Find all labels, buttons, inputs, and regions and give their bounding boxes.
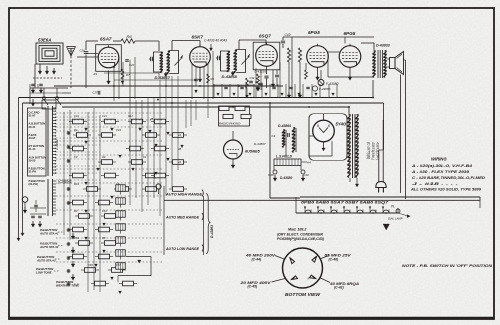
- field coil L.S.FIELD: [268, 155, 311, 182]
- condenser block title: [277, 228, 324, 242]
- V2 cathode lead: [198, 44, 212, 82]
- capacitor C21: [80, 41, 99, 88]
- wiring legend: [410, 157, 486, 192]
- AVC bus wire: [54, 85, 283, 87]
- band switch strip D-43862: [48, 106, 59, 176]
- switch strip lower: [48, 179, 72, 217]
- vacuum tube V5 6PG5: [339, 46, 361, 68]
- radio-phono switch resistors: [218, 106, 251, 126]
- matrix dashed wires: [56, 113, 162, 262]
- B+ bus wires: [19, 80, 384, 108]
- V2 pin drop wires: [192, 51, 214, 101]
- antenna: [67, 47, 99, 89]
- V4 V5 cathode leads: [305, 52, 352, 86]
- vacuum tube V4 6PG5: [307, 46, 329, 68]
- switch section label box: [28, 108, 47, 176]
- resistor R6: [113, 34, 135, 43]
- IF transformer D-43867: [149, 51, 183, 80]
- condenser socket BOTTOM VIEW: [283, 248, 323, 288]
- vacuum tube V1 6SA7: [96, 45, 122, 72]
- loop antenna leads: [33, 64, 62, 88]
- left supply rails: [19, 98, 23, 241]
- V1 cathode lead: [107, 71, 111, 85]
- antenna coupling network: [30, 88, 71, 109]
- power transformer: [348, 107, 380, 187]
- tuning eye tube 6U5/6E5: [224, 131, 261, 168]
- decoupling stubs on bus: [214, 84, 337, 98]
- matrix contact arrows and labels: [74, 114, 184, 294]
- speaker: [387, 52, 404, 75]
- interstage coupling wires: [104, 73, 255, 98]
- IF transformer D-43868: [216, 50, 250, 79]
- V3 grid components: [255, 67, 280, 92]
- tone control pot: [156, 184, 161, 194]
- matrix vertical wires: [64, 74, 208, 292]
- resistor R7: [287, 48, 290, 62]
- wire top bus to output tubes: [283, 37, 374, 98]
- matrix bottom connection wires: [118, 257, 151, 283]
- push button labels: [36, 228, 80, 288]
- heater string loops: [296, 197, 410, 221]
- left coupling caps: [34, 200, 38, 212]
- rectifier tube 5Y4G: [309, 114, 347, 160]
- arrow mark: [383, 224, 390, 230]
- wire T1 to V2: [172, 41, 200, 51]
- resistor matrix lower: [69, 200, 137, 286]
- vacuum tube V3 6SQ7: [253, 42, 280, 70]
- label P.B. button 31-PH: [29, 179, 45, 186]
- wire T2 to V3: [239, 40, 266, 50]
- wire R6 to T1: [135, 41, 159, 51]
- auto range labels: [164, 186, 214, 255]
- resistor matrix: [69, 119, 187, 191]
- capacitor label 40 MFD 6RQA: [329, 282, 360, 290]
- capacitor C49: [281, 33, 291, 48]
- wire heater to switch area: [164, 200, 480, 209]
- output transformer D-43833: [361, 43, 390, 78]
- V3 pin drop wires: [255, 62, 280, 97]
- loop antenna 53E6A: [36, 38, 63, 65]
- capacitor label 65 MFD 25V: [325, 254, 352, 262]
- socket lead lines: [272, 256, 331, 283]
- trimmer capacitor column: [116, 185, 126, 273]
- matrix contact stars: [66, 131, 74, 286]
- misc lower-left components: [30, 208, 46, 227]
- vacuum tube V2 6SK7: [190, 47, 211, 68]
- power unit enclosure: [270, 104, 480, 201]
- wire speaker to power unit: [401, 60, 406, 199]
- capacitor label 20 MFD 400V: [239, 281, 271, 289]
- components above label box: [30, 84, 43, 93]
- line cord and plug: [376, 103, 386, 193]
- resistor R8: [298, 48, 301, 62]
- interstage transformer D-43864: [272, 124, 297, 156]
- V1 pin drop wires: [93, 57, 136, 101]
- left rail ends: [17, 233, 24, 241]
- volume control: [22, 197, 28, 214]
- capacitor label 40 MFD 200V: [245, 254, 276, 262]
